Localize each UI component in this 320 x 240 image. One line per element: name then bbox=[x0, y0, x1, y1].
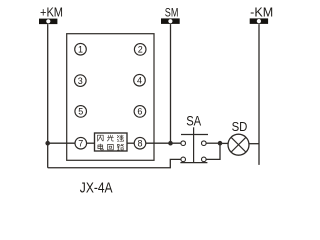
terminal bar SM bbox=[161, 18, 180, 24]
wire junction to lamp bbox=[220, 142, 228, 144]
CJK char 闪 (row1 c1) bbox=[97, 135, 103, 141]
switch SA actuator top bar bbox=[181, 134, 208, 136]
lamp SD bbox=[228, 134, 249, 155]
svg-text:JX-4A: JX-4A bbox=[80, 179, 113, 196]
CJK char 电 (row2 c1) bbox=[98, 144, 103, 150]
wire SM vertical bbox=[170, 24, 172, 143]
svg-text:2: 2 bbox=[138, 45, 143, 55]
CJK char 继 (row1 c3) bbox=[117, 135, 123, 141]
terminal 7 bbox=[75, 137, 87, 149]
svg-text:7: 7 bbox=[78, 138, 83, 148]
wire +KM vertical bbox=[47, 24, 49, 168]
switch SA contact bottom-right bbox=[202, 157, 207, 162]
wire terminal 7 to flasher box bbox=[87, 142, 95, 144]
switch SA actuator bottom bar bbox=[180, 162, 207, 164]
terminal 5 bbox=[75, 106, 87, 118]
svg-text:5: 5 bbox=[78, 107, 83, 117]
terminal 2 bbox=[134, 44, 146, 56]
junction dot SM line bbox=[168, 141, 173, 146]
svg-text:-KM: -KM bbox=[250, 6, 273, 20]
svg-text:3: 3 bbox=[78, 76, 83, 86]
CJK char 光 (row1 c2) bbox=[107, 135, 113, 141]
terminal bar +KM bbox=[39, 19, 57, 25]
wire +KM to terminal 7 bbox=[48, 142, 75, 144]
CJK char 路 (row2 c3) bbox=[117, 144, 123, 150]
flasher relay inner box bbox=[95, 133, 128, 151]
wire SA top-right to lamp junction bbox=[206, 142, 220, 144]
wire -KM vertical bbox=[258, 24, 260, 165]
wire flasher box to terminal 8 bbox=[127, 142, 134, 144]
svg-text:4: 4 bbox=[137, 75, 142, 85]
wire lamp to -KM line bbox=[249, 143, 259, 145]
wire terminal 8 to SA contact bbox=[146, 142, 181, 144]
svg-text:8: 8 bbox=[137, 138, 142, 148]
CJK char 回 (row2 c2) bbox=[108, 145, 114, 150]
junction dot on +KM line bbox=[45, 141, 50, 146]
switch SA shaft bbox=[193, 127, 195, 162]
terminal 3 bbox=[75, 75, 87, 87]
terminal bar -KM bbox=[250, 18, 268, 24]
wire bottom-left contact to +KM rail bbox=[48, 159, 181, 167]
switch SA contact bottom-left bbox=[181, 157, 186, 162]
terminal 6 bbox=[134, 106, 146, 118]
relay box JX-4A outline bbox=[67, 34, 154, 161]
terminal 4 bbox=[134, 74, 146, 86]
wire junction down to bottom-right contact bbox=[206, 143, 220, 159]
svg-text:SM: SM bbox=[165, 5, 179, 19]
svg-text:1: 1 bbox=[78, 44, 83, 54]
junction dot before lamp bbox=[218, 141, 223, 146]
terminal 8 bbox=[134, 137, 146, 149]
svg-text:SA: SA bbox=[186, 114, 201, 129]
svg-text:SD: SD bbox=[232, 119, 248, 134]
svg-text:+KM: +KM bbox=[40, 6, 63, 20]
svg-text:6: 6 bbox=[137, 107, 142, 117]
switch SA contact top-right bbox=[202, 141, 207, 146]
switch SA contact top-left bbox=[181, 141, 186, 146]
terminal 1 bbox=[75, 43, 87, 55]
